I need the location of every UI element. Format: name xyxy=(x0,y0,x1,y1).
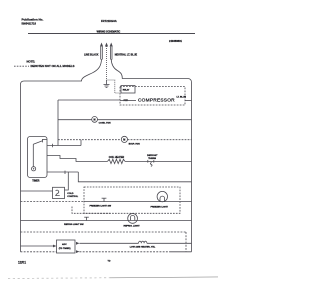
wire rail to cold control xyxy=(21,190,53,192)
compressor dashed box xyxy=(120,87,185,106)
svg-text:5995421718: 5995421718 xyxy=(22,21,37,25)
wire timer to cold control xyxy=(65,172,69,190)
svg-text:NOTE:: NOTE: xyxy=(27,59,36,63)
cond fan wire to rail xyxy=(98,119,192,121)
wire neutral: plug to right rail and down xyxy=(111,59,191,252)
freezer door switch xyxy=(103,198,105,201)
svg-text:LT. BLUE: LT. BLUE xyxy=(177,96,187,98)
ground symbol xyxy=(104,81,110,88)
refrig light row xyxy=(21,220,192,222)
svg-text:COND. FAN: COND. FAN xyxy=(99,121,111,124)
timer motor return jog xyxy=(78,172,191,182)
cond fan motor xyxy=(92,117,98,123)
svg-text:COMPRESSOR: COMPRESSOR xyxy=(138,98,175,104)
svg-text:WIRING SCHEMATIC: WIRING SCHEMATIC xyxy=(97,30,121,33)
label COLD CONTROL xyxy=(67,193,78,198)
timer inner wire xyxy=(32,144,34,167)
timer contact row 1 xyxy=(47,145,81,147)
compressor feed wire xyxy=(58,99,120,101)
svg-text:(TD TIMER): (TD TIMER) xyxy=(59,248,71,250)
freezer light row solid xyxy=(84,201,192,203)
svg-text:FREEZER LIGHT: FREEZER LIGHT xyxy=(151,206,169,208)
adc output arrow top xyxy=(76,242,80,245)
freezer light bulb xyxy=(157,191,167,201)
refrig light bulb xyxy=(128,214,138,224)
heater zigzag xyxy=(108,159,126,163)
timer contact row 3 xyxy=(47,171,78,173)
defrost heater row xyxy=(76,160,108,162)
refrig dashed enclosure xyxy=(72,207,110,214)
label DEFROST THERM xyxy=(147,155,158,160)
bottom right solid xyxy=(170,251,192,253)
svg-text:240388801: 240388801 xyxy=(169,39,183,43)
therm wire to rail xyxy=(154,160,192,162)
wire up to evap row xyxy=(80,140,82,146)
dashed vertical right xyxy=(185,232,187,252)
plug prong ground (dotted) xyxy=(105,43,108,82)
svg-text:COLD: COLD xyxy=(67,193,74,195)
header rule xyxy=(28,33,195,35)
svg-text:ADC: ADC xyxy=(62,243,67,246)
footer dotted line xyxy=(8,277,110,280)
header publication text xyxy=(22,18,183,43)
svg-text:DENOTES NOT ON ALL MODELS: DENOTES NOT ON ALL MODELS xyxy=(31,64,75,68)
svg-text:LINE BLACK: LINE BLACK xyxy=(84,53,99,56)
heater wire to therm xyxy=(125,160,148,162)
svg-text:REFRIG. LIGHT: REFRIG. LIGHT xyxy=(124,225,141,227)
timer inner contact arm xyxy=(33,141,42,144)
svg-text:CONTROL: CONTROL xyxy=(67,196,78,198)
defrost timer box xyxy=(28,137,48,178)
adc box xyxy=(57,240,76,253)
plug prong line (black blade with arrow) xyxy=(100,43,103,60)
plug prong neutral (blade with arrow) xyxy=(110,43,113,60)
vertical feed wire x58 xyxy=(57,100,59,146)
ground wire to compressor shell (dotted) xyxy=(107,80,121,93)
heater coil bumps xyxy=(139,241,147,243)
svg-text:FRT21KG3A: FRT21KG3A xyxy=(101,19,117,23)
compressor out wire to rail xyxy=(185,100,192,102)
evap fan row wire (dashed) xyxy=(58,139,121,141)
low ambient heater row xyxy=(80,242,139,244)
svg-text:COIL HEATER: COIL HEATER xyxy=(109,156,125,159)
wire line black: plug to left rail and down xyxy=(21,59,102,252)
svg-text:RELAY: RELAY xyxy=(123,89,130,92)
svg-text:FREEZER LIGHT SW: FREEZER LIGHT SW xyxy=(90,206,112,208)
freezer light row (dashed left) xyxy=(21,201,85,203)
timer contact row 2 staircase xyxy=(47,156,76,162)
relay box xyxy=(121,86,135,94)
svg-text:Publication No.: Publication No. xyxy=(22,18,44,22)
dashed bottom row xyxy=(80,251,171,253)
adc output arrow bottom xyxy=(76,250,80,253)
adc input wire xyxy=(21,245,54,247)
svg-text:NEUTRAL LT. BLUE: NEUTRAL LT. BLUE xyxy=(115,53,138,56)
defrost thermostat symbol xyxy=(147,160,149,163)
svg-text:12/01: 12/01 xyxy=(18,261,26,265)
svg-text:TD: TD xyxy=(108,261,111,263)
cond fan row wire xyxy=(58,119,92,121)
svg-text:M: M xyxy=(94,119,96,122)
evap fan motor xyxy=(121,136,127,142)
refrig door switch xyxy=(86,217,88,220)
compressor inner wire xyxy=(120,100,136,102)
cold control box xyxy=(53,187,65,198)
svg-text:REFRIG LIGHT SW: REFRIG LIGHT SW xyxy=(64,224,85,226)
svg-text:THERM: THERM xyxy=(148,158,156,160)
svg-text:EVAP. FAN: EVAP. FAN xyxy=(129,142,141,145)
svg-text:LOW AMB HEATER, YEL: LOW AMB HEATER, YEL xyxy=(130,246,156,249)
svg-text:M: M xyxy=(123,139,125,142)
freezer dashed enclosure xyxy=(84,187,180,213)
svg-text:TIMER: TIMER xyxy=(32,180,39,182)
evap fan wire to rail (dashed) xyxy=(128,139,192,141)
note dashed sample xyxy=(14,65,29,67)
timer motor xyxy=(31,167,35,171)
dashed row xyxy=(21,231,187,233)
note text xyxy=(27,59,75,68)
